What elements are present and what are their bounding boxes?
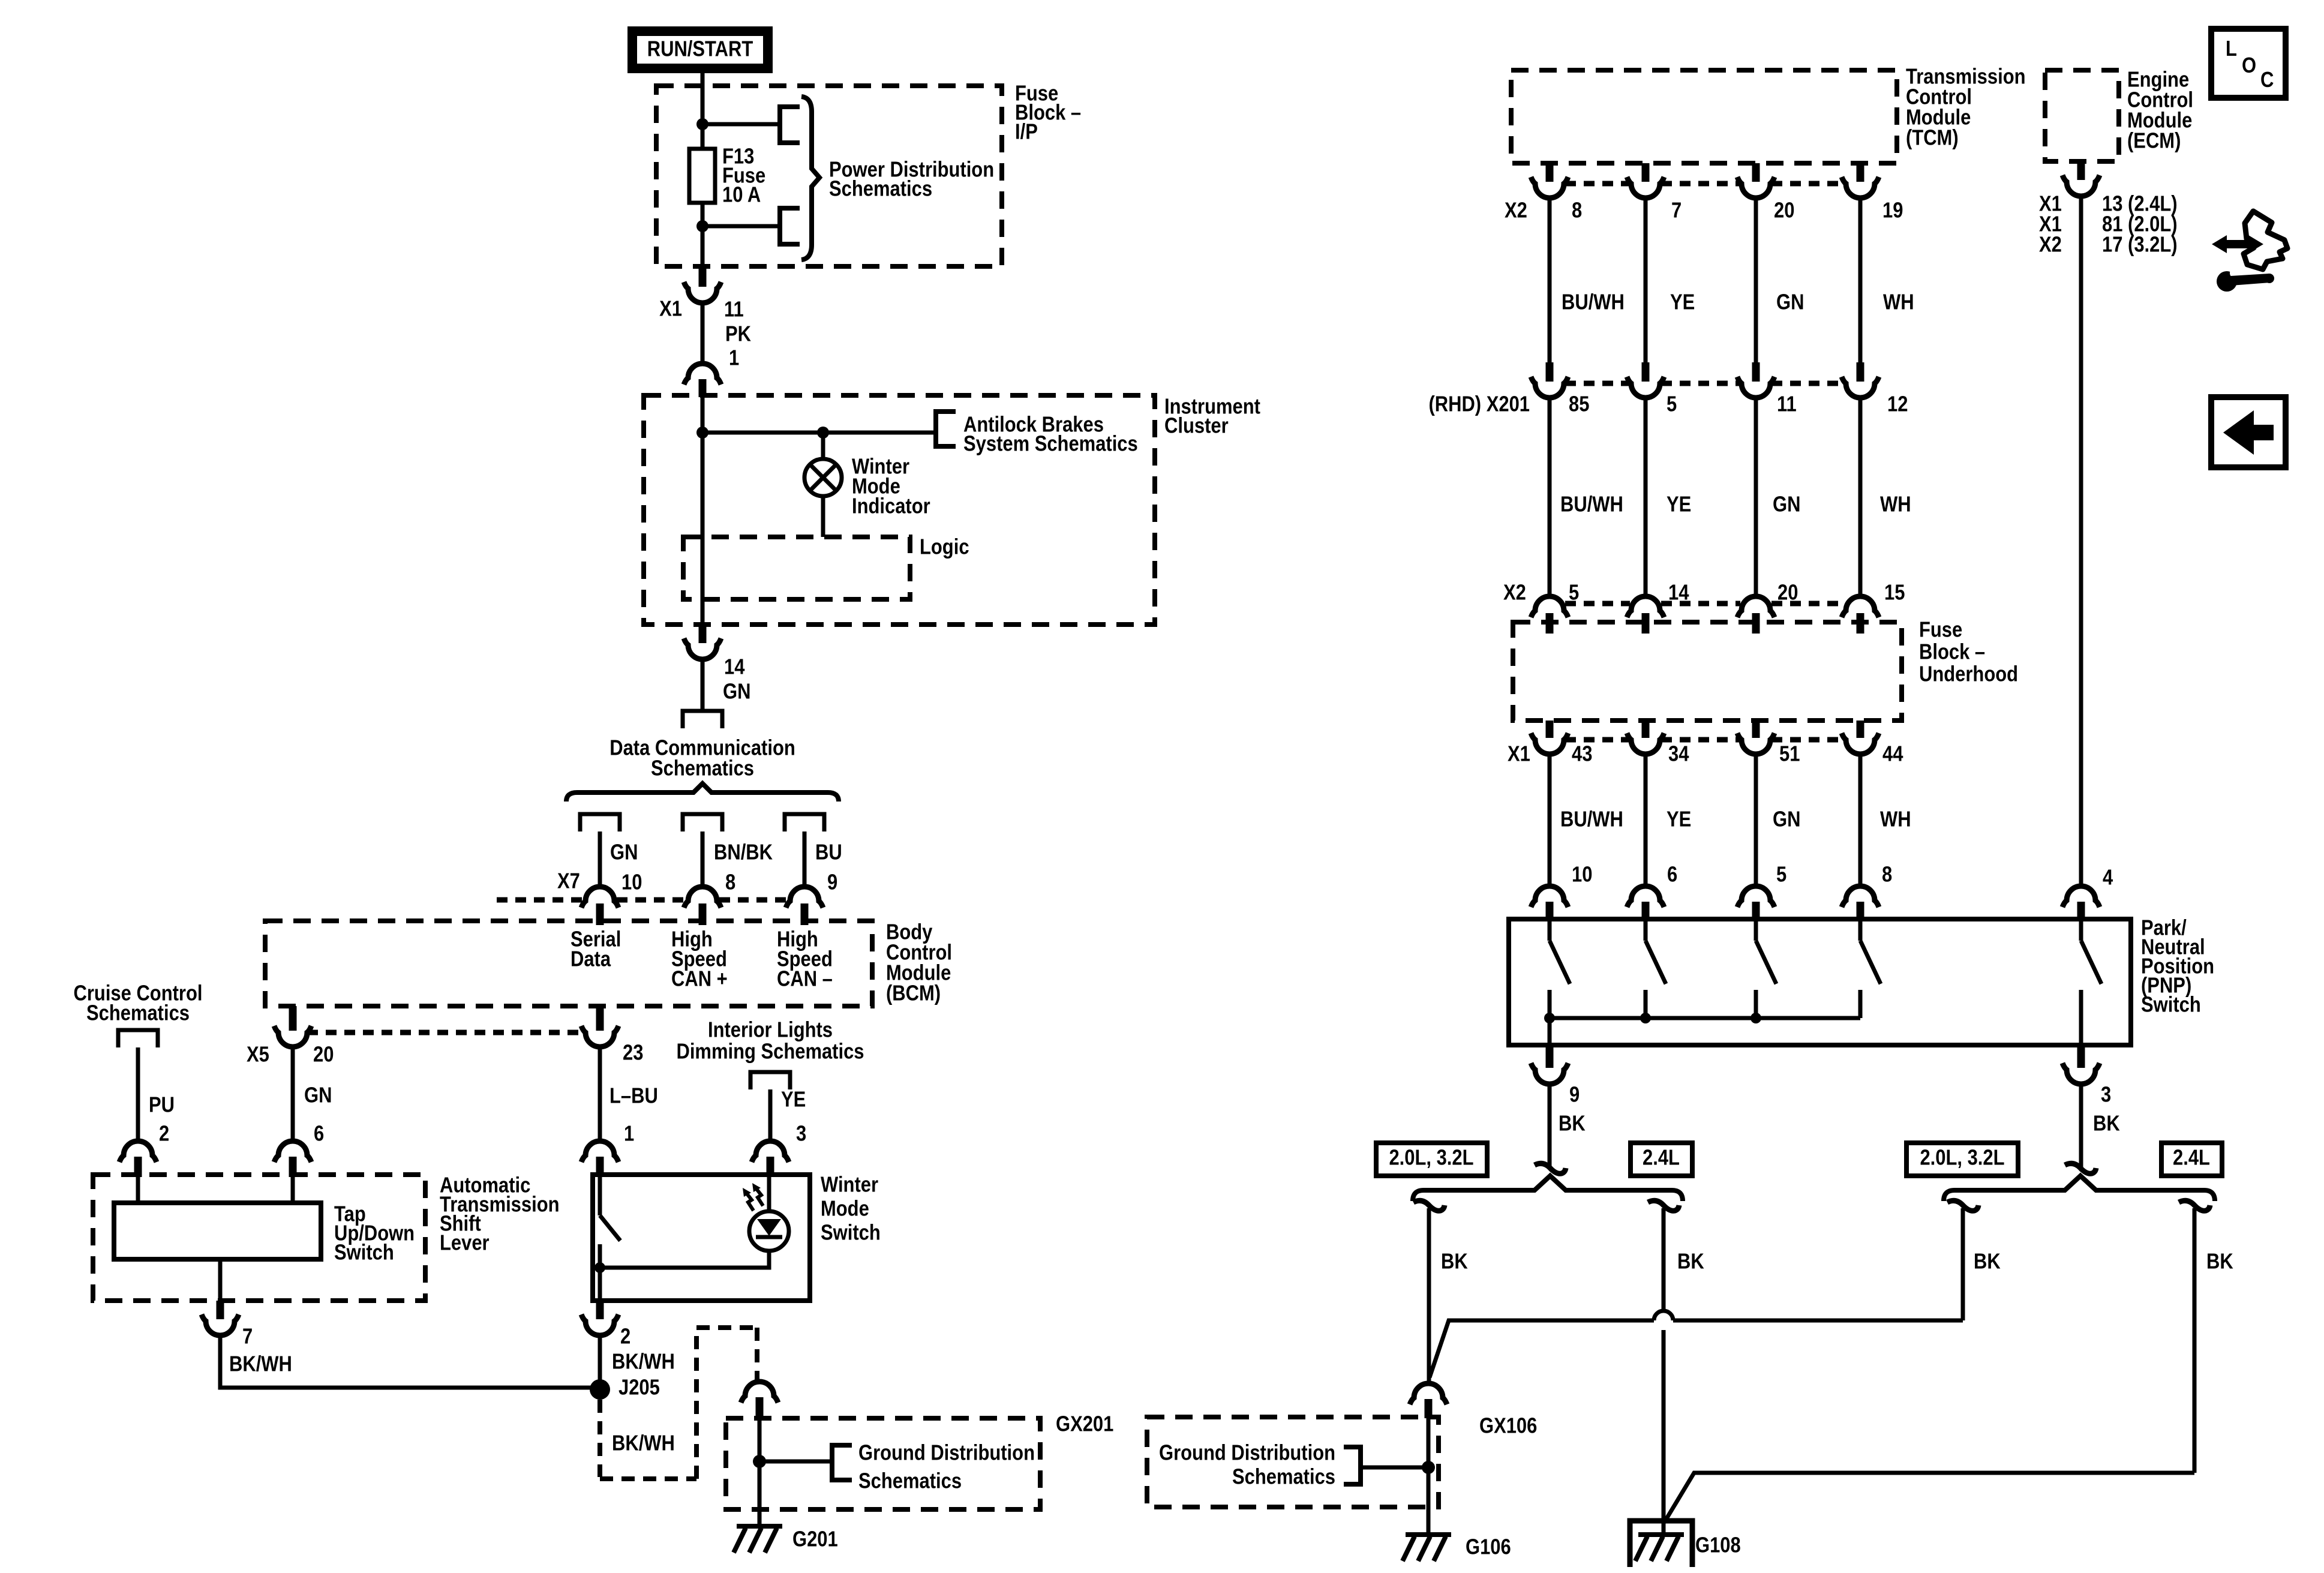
svg-text:Indicator: Indicator [852, 494, 930, 518]
dashed box Instrument Cluster [644, 395, 1155, 625]
fork from Interior Lights Dimming Schematics [750, 1072, 790, 1089]
bracket to Power Distribution (top) [780, 107, 800, 143]
fork to Data Communication Schematics [683, 711, 722, 728]
connector 7 (shift lever output) [217, 1301, 224, 1319]
power source tag RUN/START [632, 31, 768, 68]
hook below brace A left [1413, 1200, 1445, 1211]
svg-text:Schematics: Schematics [829, 177, 932, 201]
connector X1 pin 11 (fuse block output) [699, 268, 707, 287]
svg-text:85: 85 [1569, 392, 1589, 416]
svg-text:9: 9 [827, 870, 837, 894]
wire 2.4L diagonal to G108 [1664, 1473, 2194, 1523]
svg-text:51: 51 [1779, 742, 1800, 766]
connector ECM pin [2077, 161, 2085, 180]
svg-text:GX106: GX106 [1479, 1414, 1537, 1438]
svg-text:WH: WH [1880, 493, 1911, 517]
ground G201 [737, 1524, 782, 1529]
brace Data Communication branches [566, 784, 839, 801]
svg-text:CAN –: CAN – [777, 967, 833, 991]
svg-text:BK/WH: BK/WH [612, 1350, 675, 1374]
svg-text:G106: G106 [1466, 1535, 1511, 1559]
node junction lamp tap [817, 427, 829, 439]
wires TCM to X201 [1548, 198, 1552, 362]
svg-text:2.4L: 2.4L [2173, 1146, 2210, 1170]
svg-text:X2: X2 [1503, 581, 1526, 605]
wire L-BU circuit 1 from pin 23 [598, 1047, 602, 1141]
connector X5 line dashes [307, 1030, 584, 1035]
svg-text:(RHD) X201: (RHD) X201 [1428, 392, 1530, 416]
svg-text:Data: Data [571, 947, 611, 971]
svg-text:10: 10 [1572, 863, 1592, 887]
connector row X2 at fuse block underhood [1531, 596, 1568, 617]
svg-text:10 A: 10 A [722, 183, 761, 207]
svg-text:YE: YE [1670, 290, 1695, 314]
svg-text:System Schematics: System Schematics [963, 432, 1138, 456]
icon arrow left box [2211, 397, 2286, 467]
svg-text:GX201: GX201 [1056, 1412, 1113, 1436]
svg-text:17 (3.2L): 17 (3.2L) [2102, 233, 2178, 257]
svg-text:X1: X1 [659, 297, 682, 321]
wire lamp to logic [821, 496, 825, 537]
node junction below fuse F13 [696, 220, 708, 232]
wire to ground distribution bracket [759, 1460, 830, 1464]
bridge hop over 2.4L wire [1654, 1311, 1673, 1320]
svg-text:19: 19 [1882, 199, 1903, 223]
svg-text:12: 12 [1887, 392, 1908, 416]
wire through GX106 [1427, 1418, 1431, 1533]
wire LED cathode to common [600, 1251, 769, 1268]
svg-text:(TCM): (TCM) [1906, 126, 1959, 150]
wire junction to bracket (bottom feed) [702, 224, 778, 229]
fork branch CAN- [785, 814, 824, 831]
svg-text:BU/WH: BU/WH [1560, 807, 1623, 831]
wire to ground distribution bracket (left) [1361, 1466, 1428, 1470]
svg-text:Dimming Schematics: Dimming Schematics [676, 1040, 864, 1064]
bracket Ground Distribution Schematics (GX201) [832, 1445, 852, 1480]
wire GN from X5-20 [291, 1047, 295, 1141]
node switch common [594, 1262, 605, 1273]
indicator lamp Winter Mode Indicator [804, 459, 842, 496]
svg-text:GN: GN [723, 680, 750, 704]
connector X7 pin 9 [786, 887, 823, 908]
svg-text:20: 20 [1777, 581, 1798, 605]
svg-text:O: O [2242, 54, 2256, 78]
node GX201 splice [753, 1455, 766, 1468]
svg-text:WH: WH [1880, 807, 1911, 831]
hook below brace B left [1947, 1200, 1978, 1211]
svg-text:Underhood: Underhood [1919, 662, 2018, 686]
svg-text:Winter: Winter [821, 1173, 878, 1197]
wire YE [768, 1089, 773, 1141]
box Tap Up/Down Switch [114, 1203, 321, 1259]
connector 2 at shift lever [119, 1141, 157, 1162]
svg-text:PU: PU [149, 1093, 175, 1117]
svg-text:Cluster: Cluster [1164, 414, 1229, 438]
svg-text:I/P: I/P [1015, 120, 1038, 144]
dashed box Body Control Module BCM [265, 921, 872, 1006]
wires fuse block to PNP switch [1548, 754, 1552, 886]
connector 1 at winter mode switch [581, 1141, 618, 1162]
svg-text:2: 2 [620, 1325, 630, 1349]
wire BK/WH to J205 [220, 1335, 596, 1388]
ground G106 [1406, 1532, 1451, 1537]
connector pin 23 (BCM output) [596, 1006, 604, 1031]
tag box 2.4L [1631, 1143, 1692, 1176]
connector row at PNP switch top [1531, 886, 1568, 907]
connector 3 at winter mode switch [752, 1141, 789, 1162]
svg-text:YE: YE [781, 1088, 806, 1112]
wire RUN/START to fuse block [701, 73, 705, 124]
dashed box Logic [683, 537, 910, 599]
svg-text:7: 7 [1671, 199, 1682, 223]
svg-text:BU: BU [815, 840, 842, 864]
node GX106 splice [1422, 1461, 1435, 1474]
wire into cluster to junction [701, 397, 705, 433]
dashed box Winter Mode Switch [593, 1175, 810, 1301]
svg-text:1: 1 [624, 1122, 634, 1146]
svg-text:L–BU: L–BU [609, 1084, 658, 1108]
svg-text:Switch: Switch [334, 1241, 394, 1265]
svg-text:BN/BK: BN/BK [714, 840, 773, 864]
hook below brace A right [1648, 1200, 1679, 1211]
LED winter mode switch illumination [767, 1177, 771, 1212]
svg-text:Ground Distribution: Ground Distribution [1159, 1441, 1335, 1465]
svg-text:5: 5 [1776, 863, 1786, 887]
svg-text:14: 14 [724, 655, 745, 679]
hook below brace B right [2179, 1200, 2210, 1211]
bracket to Power Distribution (bottom) [780, 208, 800, 244]
svg-text:Schematics: Schematics [858, 1469, 962, 1493]
LED arrows [745, 1191, 753, 1211]
svg-text:BK: BK [1974, 1250, 2001, 1274]
svg-text:BU/WH: BU/WH [1562, 290, 1625, 314]
svg-text:23: 23 [623, 1041, 643, 1065]
svg-text:3: 3 [2101, 1083, 2111, 1107]
wire junction to bracket (top feed) [702, 122, 778, 127]
connector row X1 below fuse block [1546, 721, 1554, 738]
hook wire 9 [1535, 1163, 1566, 1173]
dashed box splice pack GX106 [1147, 1417, 1439, 1507]
hook wire 3 [2065, 1163, 2096, 1173]
svg-text:WH: WH [1883, 290, 1914, 314]
svg-text:Lever: Lever [440, 1231, 490, 1255]
svg-text:BK: BK [1441, 1250, 1468, 1274]
connector row X201 (RHD) [1546, 362, 1554, 382]
svg-text:8: 8 [1882, 863, 1892, 887]
wire ECM pin 4 long run [2079, 196, 2083, 886]
connector 2 (winter mode switch output) [596, 1301, 604, 1319]
svg-text:34: 34 [1668, 742, 1689, 766]
connector X7 pin 10 [581, 887, 618, 908]
svg-text:BK: BK [1677, 1250, 1704, 1274]
svg-text:GN: GN [610, 840, 638, 864]
wire cross-link to GX106 with bridge [1673, 1319, 1963, 1323]
dashed harness wire BK/WH to GX201 [597, 1400, 602, 1477]
svg-text:Schematics: Schematics [86, 1001, 190, 1025]
legend box LOC [2211, 29, 2286, 98]
wire BU CAN- [803, 831, 807, 887]
svg-text:C: C [2260, 68, 2274, 92]
dashed box Automatic Transmission Shift Lever [93, 1175, 425, 1301]
svg-text:BK/WH: BK/WH [229, 1352, 292, 1376]
tag box 2.0L 3.2L (right) [1906, 1143, 2018, 1176]
wire PU [136, 1047, 140, 1141]
engine variant brace B [1944, 1176, 2215, 1201]
fuse F13 10A [701, 124, 705, 149]
svg-text:Switch: Switch [821, 1221, 881, 1245]
dashed box Transmission Control Module TCM [1511, 70, 1897, 163]
wire BN/BK CAN+ [701, 831, 705, 887]
connector line X7 dashes [497, 897, 583, 903]
svg-text:BK: BK [2093, 1112, 2120, 1136]
svg-text:BK: BK [2206, 1250, 2233, 1274]
brace Power Distribution Schematics [801, 97, 819, 260]
connector 6 at shift lever [274, 1141, 311, 1162]
fork from Cruise Control Schematics [118, 1030, 158, 1047]
G108 shield bracket [1630, 1521, 1692, 1567]
svg-text:3: 3 [796, 1122, 806, 1146]
svg-text:7: 7 [242, 1325, 253, 1349]
svg-text:11: 11 [724, 298, 744, 322]
wires into tap switch [136, 1175, 140, 1203]
wire BK 2.4L right branch [2193, 1208, 2197, 1473]
bracket to Antilock Brakes [936, 412, 956, 446]
svg-text:20: 20 [313, 1043, 334, 1067]
svg-text:9: 9 [1569, 1083, 1580, 1107]
svg-text:6: 6 [314, 1122, 324, 1146]
wire BK 2.0L/3.2L to GX106 [1427, 1208, 1431, 1383]
wire PNP pin 9 inside box [1548, 1018, 1552, 1045]
svg-text:Switch: Switch [2141, 993, 2201, 1017]
svg-text:(BCM): (BCM) [886, 981, 941, 1005]
svg-text:(ECM): (ECM) [2127, 129, 2181, 153]
node junction to ABS feed [696, 427, 708, 439]
box Park/Neutral Position PNP Switch [1509, 919, 2131, 1045]
connector at GX201 [741, 1382, 778, 1403]
svg-text:Logic: Logic [920, 535, 969, 559]
svg-text:14: 14 [1668, 581, 1689, 605]
connector at GX106 [1410, 1383, 1447, 1404]
svg-text:BK: BK [1559, 1112, 1586, 1136]
wire BK 2.0L/3.2L right branch [1961, 1208, 1965, 1320]
connector at instrument cluster input [684, 364, 721, 385]
svg-text:CAN +: CAN + [671, 967, 728, 991]
svg-text:BK/WH: BK/WH [612, 1431, 675, 1455]
svg-text:4: 4 [2103, 866, 2113, 890]
svg-text:11: 11 [1777, 392, 1797, 416]
svg-text:L: L [2226, 37, 2237, 61]
dashed box Fuse Block - I/P [656, 86, 1002, 266]
svg-text:X1: X1 [1508, 742, 1530, 766]
svg-text:GN: GN [1773, 493, 1800, 517]
wire 9 to engine variant brace [1548, 1084, 1552, 1169]
svg-text:1: 1 [729, 346, 739, 370]
fork branch serial data [580, 814, 620, 831]
wire PK circuit 1 [701, 303, 705, 364]
svg-text:2.0L, 3.2L: 2.0L, 3.2L [1920, 1146, 2004, 1170]
wire junction to ABS bracket [702, 431, 934, 435]
wire 3 to engine variant brace B [2079, 1084, 2083, 1169]
tag box 2.4L (right) [2161, 1143, 2222, 1176]
svg-text:8: 8 [1572, 199, 1582, 223]
svg-text:Interior Lights: Interior Lights [708, 1018, 833, 1042]
switch blade winter mode [598, 1177, 602, 1215]
dashed box Engine Control Module ECM [2045, 70, 2119, 161]
svg-text:Schematics: Schematics [651, 757, 754, 781]
svg-text:Block –: Block – [1919, 640, 1985, 664]
svg-text:RUN/START: RUN/START [647, 37, 753, 61]
svg-text:15: 15 [1884, 581, 1905, 605]
svg-text:44: 44 [1882, 742, 1903, 766]
connector pin 9 below PNP [1546, 1045, 1554, 1068]
svg-text:X2: X2 [1505, 199, 1527, 223]
icon double arrow with connector shape [2220, 240, 2256, 248]
dashed box splice pack GX201 [726, 1418, 1040, 1509]
wire switch output [598, 1268, 602, 1301]
wire GN circuit 14 [701, 659, 705, 711]
svg-text:Schematics: Schematics [1232, 1465, 1335, 1489]
svg-text:5: 5 [1569, 581, 1579, 605]
connector X7 pin 8 [684, 887, 721, 908]
wire to J205 [598, 1335, 602, 1389]
svg-text:YE: YE [1667, 807, 1691, 831]
wires X201 to fuse block [1548, 398, 1552, 597]
splice J205 [590, 1379, 610, 1400]
svg-text:6: 6 [1667, 863, 1677, 887]
svg-text:X5: X5 [247, 1043, 269, 1067]
svg-text:2: 2 [159, 1122, 169, 1146]
svg-text:X7: X7 [557, 869, 580, 893]
svg-text:20: 20 [1774, 199, 1794, 223]
svg-text:G108: G108 [1695, 1533, 1741, 1557]
svg-text:Mode: Mode [821, 1197, 869, 1221]
svg-text:X2: X2 [2039, 233, 2062, 257]
svg-text:J205: J205 [618, 1376, 660, 1400]
svg-text:8: 8 [725, 870, 735, 894]
svg-text:Fuse: Fuse [1919, 618, 1962, 642]
svg-text:G201: G201 [792, 1527, 838, 1551]
wire through GX201 [758, 1417, 762, 1524]
bracket Ground Distribution Schematics (GX106) [1344, 1447, 1361, 1484]
svg-text:BU/WH: BU/WH [1560, 493, 1623, 517]
wire GN serial data [598, 831, 602, 887]
wire main through cluster [701, 433, 705, 625]
wire lamp feed [821, 433, 825, 460]
svg-text:2.0L, 3.2L: 2.0L, 3.2L [1389, 1146, 1473, 1170]
connector pin 3 below PNP [2077, 1045, 2085, 1068]
connector cluster output pin 14 [699, 625, 707, 643]
node junction above fuse F13 [696, 118, 708, 130]
svg-text:GN: GN [1776, 290, 1804, 314]
svg-text:43: 43 [1572, 742, 1592, 766]
svg-text:PK: PK [725, 322, 751, 346]
fork branch CAN+ [683, 814, 722, 831]
dashed box Fuse Block - Underhood [1513, 622, 1902, 721]
PNP common bus [1550, 1016, 1860, 1020]
engine variant brace A [1413, 1176, 1683, 1201]
wire tap switch output [218, 1259, 223, 1301]
svg-text:GN: GN [1773, 807, 1800, 831]
svg-text:Ground Distribution: Ground Distribution [858, 1441, 1035, 1465]
svg-text:10: 10 [621, 870, 642, 894]
connector row X2 at TCM [1546, 163, 1554, 182]
connector X5 pin 20 (BCM output) [289, 1006, 297, 1031]
tag box 2.0L 3.2L [1376, 1143, 1487, 1176]
svg-text:2.4L: 2.4L [1643, 1146, 1680, 1170]
svg-text:5: 5 [1667, 392, 1677, 416]
svg-text:YE: YE [1667, 493, 1691, 517]
wire fuse block output [701, 226, 705, 268]
wire PNP pin 3 inside box [2079, 990, 2083, 1045]
svg-text:GN: GN [304, 1083, 332, 1107]
ground G108 [1638, 1532, 1684, 1537]
PNP switch contacts [1548, 921, 1552, 941]
wire BK 2.4L to G108 [1662, 1208, 1666, 1311]
